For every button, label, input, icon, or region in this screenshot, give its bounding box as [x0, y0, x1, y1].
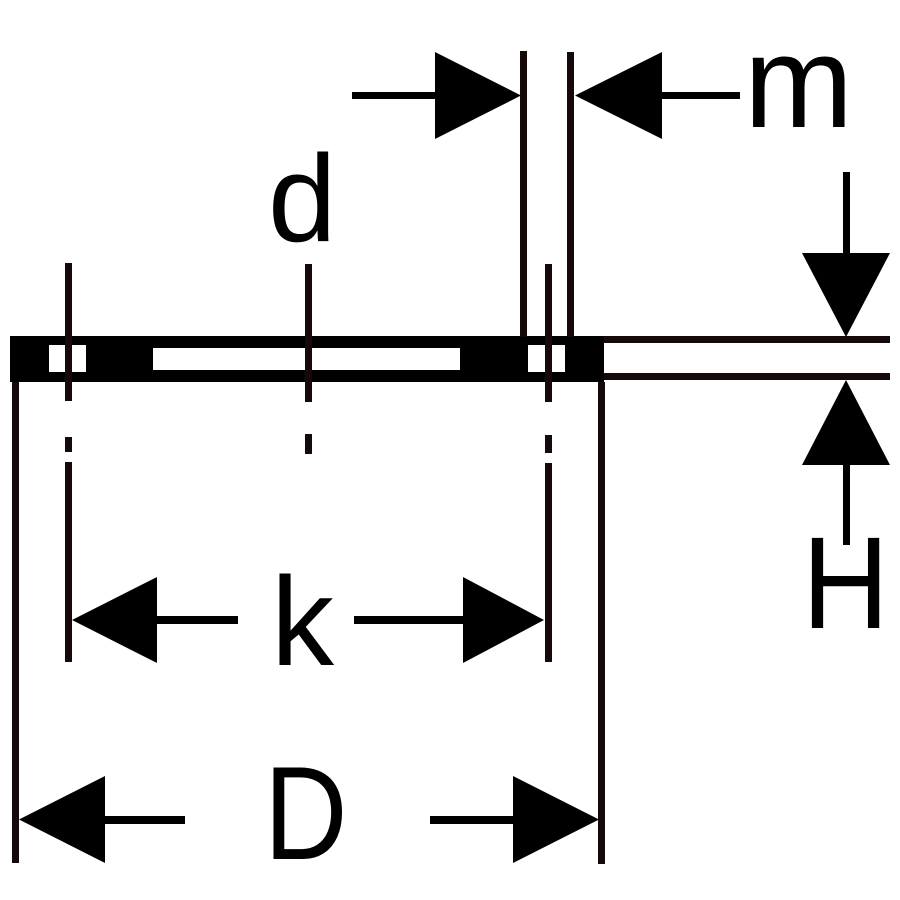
centerline d dash	[305, 434, 312, 454]
dimension m left tail	[352, 92, 441, 99]
bolt centerline right dash	[545, 435, 552, 453]
dimension H up arrowhead	[802, 380, 890, 465]
bolt hole left (white cutout)	[49, 345, 86, 372]
bolt centerline left dash	[65, 437, 72, 452]
bolt hole right (white cutout)	[528, 345, 565, 372]
dimension k left tail	[157, 616, 238, 624]
dimension D right arrowhead	[513, 776, 599, 863]
dimension k left arrowhead	[72, 577, 157, 663]
dimension D left tail	[105, 816, 185, 824]
bolt centerline left lower solid	[65, 462, 72, 662]
dimension H lower tail	[843, 465, 850, 545]
dimension D extension line right	[598, 382, 605, 864]
bolt centerline right lower solid	[545, 463, 552, 662]
pipe bottom line	[604, 373, 890, 380]
bolt centerline right solid	[545, 264, 552, 402]
dimension k right tail	[354, 616, 463, 624]
dimension k right arrowhead	[463, 577, 544, 663]
centerline d solid	[305, 264, 312, 402]
dimension D left arrowhead	[19, 776, 105, 863]
svg-text:D: D	[264, 740, 348, 888]
svg-text:H: H	[802, 509, 889, 656]
gasket slot (white cutout)	[153, 348, 460, 370]
dimension m right arrowhead	[575, 52, 662, 139]
dimension m extension line right	[567, 52, 574, 337]
dimension m right tail	[662, 92, 740, 99]
svg-text:m: m	[744, 8, 853, 155]
dimension D extension line left	[12, 382, 19, 863]
flange cross-section bar	[10, 336, 604, 382]
dimension H upper tail	[843, 172, 850, 253]
svg-text:d: d	[268, 131, 336, 268]
svg-text:k: k	[271, 551, 335, 692]
pipe top line	[604, 336, 890, 343]
bolt centerline left solid	[65, 263, 72, 401]
dimension m left arrowhead	[435, 52, 521, 139]
dimension D right tail	[430, 816, 516, 824]
dimension m extension line left	[520, 51, 527, 337]
dimension H down arrowhead	[802, 253, 890, 337]
